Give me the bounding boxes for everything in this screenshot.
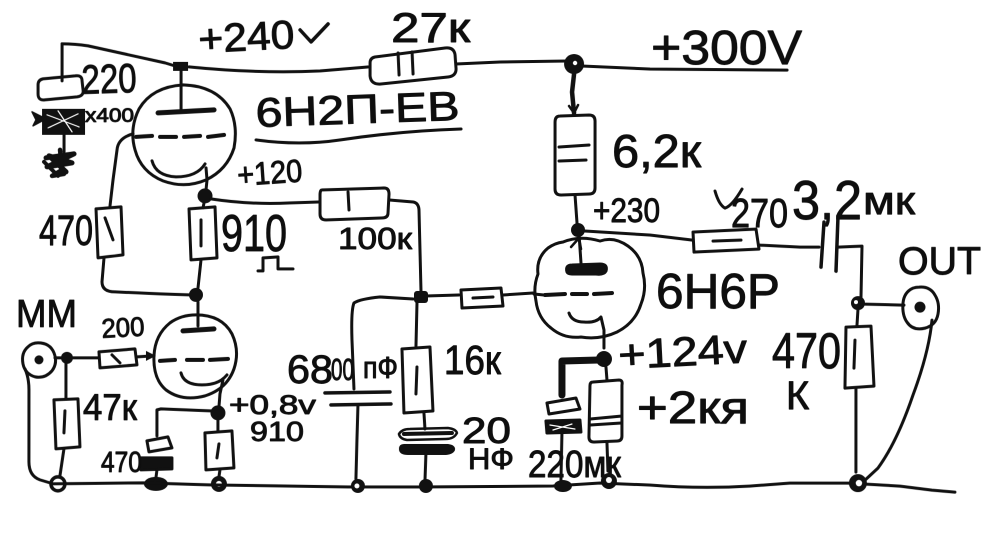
bus dot under C220mk [554, 480, 572, 492]
svg-text:пФ: пФ [363, 350, 398, 385]
wire RIAA node down to R16k [416, 303, 417, 346]
resistor R2k body [589, 380, 622, 442]
6N6P anode bar [567, 264, 607, 274]
svg-text:47к: 47к [83, 387, 138, 428]
V1b cathode curve [181, 373, 227, 385]
SRPP node junction dot [189, 288, 203, 302]
anode node +230 dot [571, 223, 585, 237]
svg-text:910: 910 [250, 416, 304, 447]
R200 inner mark [112, 355, 120, 363]
svg-text:+124v: +124v [617, 325, 749, 378]
tube V1b lower triode envelope [154, 315, 237, 398]
wire C3.2 to out node [838, 246, 862, 297]
grid stopper resistor body [461, 288, 503, 308]
V1a anode plate bar [158, 110, 214, 113]
R47k inner mark [64, 411, 65, 433]
wire top-left vertical [61, 44, 64, 81]
wire jack to input node [55, 356, 62, 359]
resistor R27k body [370, 48, 456, 84]
capacitor C470 top plate [147, 437, 172, 452]
capacitor scribble box x400 [32, 109, 85, 135]
wire R910b to bus ring [219, 470, 220, 477]
svg-text:68: 68 [287, 348, 333, 392]
capacitor C20n bottom plate [400, 445, 454, 454]
wire jack sleeve to ground [25, 369, 50, 483]
wire R6.2k to anode node [575, 195, 577, 223]
pulse glyph [258, 257, 293, 271]
svg-text:16к: 16к [444, 337, 502, 383]
wire R2k to ground ring [607, 442, 608, 471]
wire C20n to bus [425, 453, 426, 482]
svg-text:6,2к: 6,2к [612, 125, 702, 177]
svg-text:+300V: +300V [651, 22, 802, 75]
svg-text:+240: +240 [197, 13, 295, 62]
wire C6800 to bus [356, 405, 358, 479]
capacitor C470 bottom plate [141, 458, 172, 470]
6N6P grid dashes [545, 293, 612, 295]
wire R910 bottom to SRPP node [198, 260, 201, 288]
6N6P cathode [569, 313, 604, 348]
ground open terminal [51, 477, 65, 491]
wire +300 node to right [582, 66, 787, 70]
svg-text:27к: 27к [391, 4, 471, 51]
capacitor C6800 bottom plate [331, 404, 391, 405]
wire cathode dot to R910 top [203, 203, 204, 208]
svg-text:00: 00 [331, 352, 354, 387]
out node dot [851, 296, 865, 310]
resistor R200 body [99, 349, 137, 368]
wire R47k to ground terminal [60, 449, 64, 476]
grid stopper inner mark [473, 297, 493, 298]
wire R270 to C3.2 [759, 245, 819, 247]
wire input node down to R47k [64, 364, 67, 398]
V1a grid dashes [136, 135, 224, 137]
V1a anode wire [180, 71, 183, 109]
V1a cathode curve [152, 161, 205, 177]
input jack MM center dot [34, 355, 43, 364]
tube 6N6P envelope [535, 238, 645, 338]
wire +120 node to 100k [211, 199, 320, 204]
svg-text:+2кя: +2кя [637, 382, 749, 433]
wire grid stopper to 6N6P grid [503, 293, 533, 295]
svg-text:220: 220 [81, 55, 138, 103]
wire cathode node to R910b [216, 418, 219, 431]
R470k inner mark [854, 340, 855, 368]
svg-text:6Н2П-ЕВ: 6Н2П-ЕВ [255, 83, 460, 136]
bus dot under C6800 [351, 479, 365, 493]
wire cathode node to C470 [157, 409, 211, 436]
wire RIAA node to grid resistor [426, 295, 459, 296]
wire out node to jack [864, 304, 904, 305]
ground junction right [849, 474, 867, 492]
svg-text:470: 470 [772, 323, 841, 379]
svg-text:6Н6Р: 6Н6Р [656, 265, 780, 319]
wire +300 node down to R6.2k [572, 74, 574, 113]
svg-text:К: К [786, 374, 810, 418]
svg-text:мк: мк [863, 179, 916, 223]
svg-text:+230: +230 [593, 192, 660, 230]
wire R470 bottom to SRPP node [102, 258, 190, 295]
wire from top-left to +240V node [62, 44, 178, 67]
wire V1b anode to SRPP node [196, 302, 199, 326]
R100k inner mark [348, 192, 349, 210]
svg-text:470: 470 [101, 447, 142, 479]
resistor R470k body [845, 326, 874, 388]
wire 100k to RIAA node [389, 200, 421, 291]
R470 inner mark [105, 218, 113, 240]
wire R470k to ground [854, 388, 857, 472]
label v270 [715, 189, 742, 208]
tube V1a 6N2P upper triode envelope [133, 85, 236, 185]
ring terminal R2k [601, 473, 617, 489]
underline under 6N2P-EV [256, 129, 461, 143]
input jack MM outer [23, 343, 56, 377]
resistor R16k body [402, 347, 433, 413]
capacitor C220mk bottom plate [546, 420, 581, 433]
wire C220mk to bus [561, 433, 562, 481]
wire R16k to C20 [424, 413, 425, 429]
resistor R6.2k body [555, 115, 595, 195]
R270 inner mark [713, 240, 741, 241]
6N6P anode wire with arrow [579, 234, 581, 263]
wire input node to R200 [73, 356, 98, 359]
wire scribble box to ground [63, 134, 66, 152]
ground bus [51, 483, 955, 492]
wire anode node to R270 [585, 231, 692, 240]
resistor R910b body [205, 431, 234, 470]
wire R200 to V1b grid with arrow [137, 356, 152, 357]
svg-text:НФ: НФ [468, 443, 514, 476]
bus dot under C20n [419, 479, 433, 493]
bus dot under C470 [144, 477, 168, 491]
capacitor C20n top plate [399, 428, 457, 440]
thick wire cathode node to C220mk [562, 360, 598, 395]
+300 node junction dot [564, 54, 584, 74]
V1a grid wire to 470 [110, 134, 133, 206]
resistor R470 grid leak body [96, 207, 123, 258]
V1b anode bar [183, 329, 214, 331]
ring terminal R910b [211, 476, 227, 492]
V1b grid dashes [160, 359, 228, 361]
RIAA node junction [414, 291, 428, 303]
resistor R910 upper body [189, 207, 217, 260]
output jack outer [903, 287, 939, 329]
svg-text:х400: х400 [85, 106, 134, 127]
wire RIAA node left to C6800 [352, 297, 413, 389]
svg-text:ММ: ММ [16, 293, 77, 336]
input node dot [61, 352, 73, 364]
R910 inner mark [200, 220, 203, 246]
capacitor C6800 top plate [325, 392, 390, 393]
resistor R270 body [693, 229, 759, 252]
wire R27k to +300 node [456, 61, 566, 64]
wire +240 node to R27k [189, 67, 368, 72]
V1b cathode node dot +0.8v [210, 405, 225, 420]
resistor R47k body [54, 399, 80, 449]
R2k divider lines [590, 416, 622, 425]
svg-text:910: 910 [221, 205, 287, 263]
svg-text:100к: 100к [338, 221, 412, 256]
R6.2k inner marks [559, 145, 589, 161]
wire out node to R470k [857, 309, 858, 325]
svg-text:+120: +120 [236, 152, 303, 192]
R27k inner marks 11 [398, 52, 413, 75]
capacitor C3.2 plates [821, 216, 838, 271]
resistor R100k body [320, 188, 389, 220]
R910b inner mark [217, 444, 219, 458]
svg-text:200: 200 [101, 312, 146, 344]
output jack center dot [914, 302, 925, 313]
svg-text:3,2: 3,2 [792, 169, 862, 231]
6N6P cathode node dot [596, 351, 612, 367]
6N6P grid wire [534, 294, 544, 295]
svg-text:OUT: OUT [898, 240, 981, 283]
capacitor C220mk top plate [547, 398, 580, 414]
svg-text:470: 470 [39, 207, 93, 255]
wire jack sleeve down to ground [864, 320, 932, 481]
wire C470 to bus [156, 470, 157, 478]
wire cathode node to R2k [606, 367, 607, 380]
cathode node +120 dot [198, 188, 213, 203]
node +240V junction [173, 62, 188, 71]
ground scribble [44, 150, 74, 176]
capacitor C 220 body [38, 76, 83, 100]
R16k inner mark [416, 367, 417, 394]
